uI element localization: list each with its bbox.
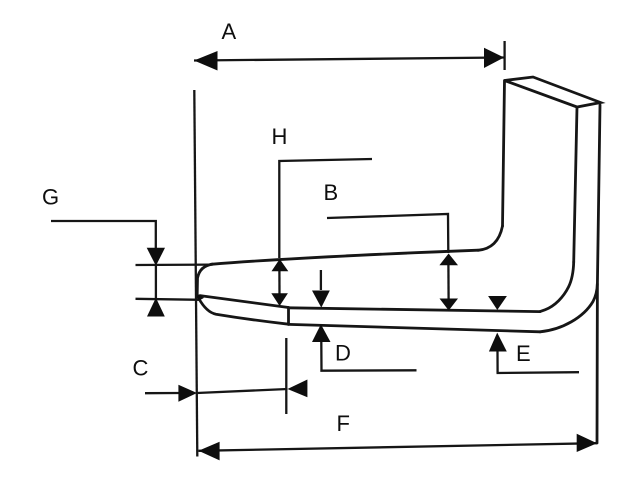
- arrowhead C left-pointing-right: [178, 385, 197, 402]
- arrowhead F left: [199, 442, 220, 461]
- arrowhead C right-pointing-left: [288, 380, 308, 398]
- dimension A line: [194, 58, 504, 61]
- extension line left (A C F): [194, 90, 197, 457]
- arrowhead G down: [147, 248, 165, 266]
- svg-text:D: D: [335, 341, 351, 366]
- fork tip upper taper line: [200, 296, 289, 308]
- arrowhead A left: [194, 51, 218, 71]
- arrowhead B down: [440, 299, 459, 311]
- arrowhead E up: [489, 333, 507, 352]
- inner corner blade top to upright: [478, 226, 503, 250]
- fork tip nose: [197, 264, 212, 298]
- B leader line: [327, 214, 448, 253]
- svg-text:E: E: [516, 341, 531, 366]
- fork blade top edge: [211, 250, 478, 264]
- arrowhead E down: [488, 296, 507, 310]
- G connector line: [155, 265, 157, 298]
- dimension A right tick: [503, 41, 505, 70]
- G lower extension line: [136, 299, 202, 300]
- svg-text:B: B: [324, 180, 339, 205]
- blade lower heel curve: [540, 284, 597, 332]
- arrowhead H up: [272, 259, 289, 271]
- arrowhead A right: [484, 48, 504, 68]
- taper end jog: [287, 308, 290, 325]
- G upper extension line: [136, 263, 210, 266]
- H leader line: [279, 159, 372, 258]
- blade mid heel curve into upright front-right edge: [540, 262, 574, 312]
- E lower stem and shelf: [497, 352, 580, 374]
- fork tip lower taper line: [199, 299, 289, 325]
- arrowhead H down: [271, 293, 288, 306]
- svg-text:F: F: [337, 411, 350, 436]
- C leader line: [145, 392, 179, 395]
- dimension F line: [199, 443, 598, 451]
- upright top face: [505, 77, 601, 107]
- C right extension line: [285, 338, 287, 414]
- D upper stem: [320, 270, 322, 290]
- H shaft: [278, 270, 280, 294]
- upright front-left edge: [503, 81, 505, 227]
- blade lower bottom line: [289, 324, 541, 331]
- arrowhead G up: [147, 298, 165, 317]
- arrowhead F right: [577, 434, 597, 452]
- arrowhead D down: [312, 291, 330, 308]
- G leader line: [51, 221, 156, 248]
- D lower stem and shelf: [320, 342, 416, 371]
- fork tip nose bottom fillet: [197, 295, 202, 300]
- svg-text:G: G: [42, 185, 59, 210]
- arrowhead D up: [312, 324, 331, 342]
- blade mid bottom line: [289, 308, 541, 312]
- svg-text:A: A: [222, 19, 237, 44]
- upright back-right edge and F extension line: [597, 105, 600, 443]
- svg-text:C: C: [133, 355, 149, 380]
- svg-text:H: H: [272, 124, 288, 149]
- dimension C line: [197, 389, 288, 393]
- upright front-right edge: [574, 107, 577, 262]
- B shaft: [447, 264, 450, 299]
- arrowhead B up: [439, 254, 458, 266]
